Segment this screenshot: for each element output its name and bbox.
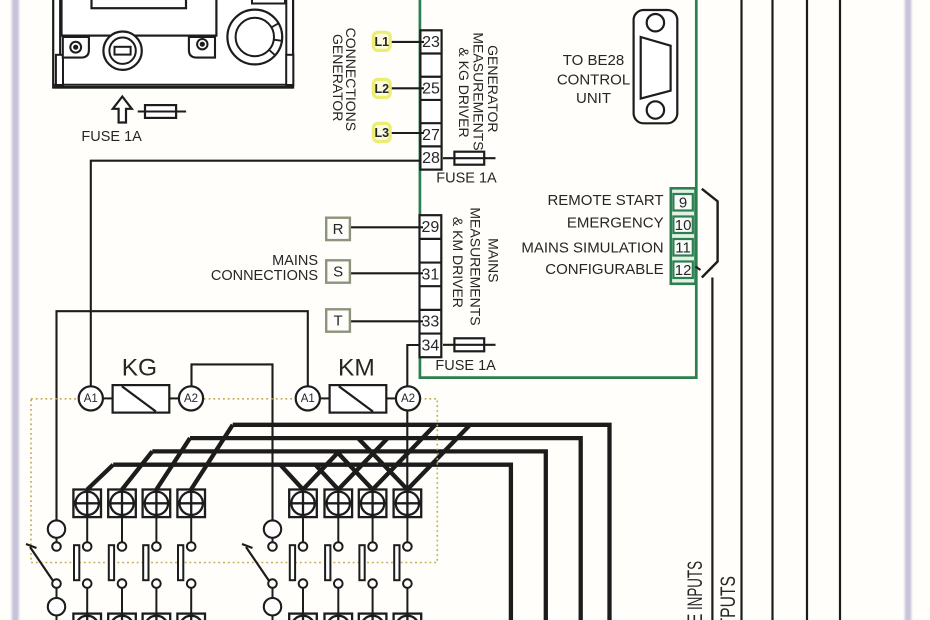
- svg-text:UNIT: UNIT: [576, 90, 611, 107]
- svg-text:29: 29: [422, 219, 440, 236]
- svg-text:33: 33: [422, 314, 440, 331]
- svg-text:9: 9: [679, 194, 687, 211]
- svg-text:L1: L1: [375, 35, 390, 49]
- svg-text:OUTPUTS: OUTPUTS: [717, 576, 740, 620]
- svg-text:KG: KG: [122, 355, 157, 382]
- svg-text:REMOTE START: REMOTE START: [547, 192, 663, 209]
- svg-text:CONNECTIONS: CONNECTIONS: [211, 268, 318, 284]
- svg-text:TO BE28: TO BE28: [563, 52, 624, 69]
- svg-text:34: 34: [422, 337, 440, 354]
- svg-text:MEASUREMENTS: MEASUREMENTS: [471, 32, 487, 150]
- svg-text:A1: A1: [84, 393, 98, 405]
- svg-text:23: 23: [422, 34, 440, 51]
- svg-text:FUSE 1A: FUSE 1A: [435, 358, 496, 374]
- svg-text:A2: A2: [184, 393, 198, 405]
- svg-text:CONTROL: CONTROL: [557, 72, 630, 89]
- svg-text:A2: A2: [401, 393, 415, 405]
- svg-text:31: 31: [422, 266, 440, 283]
- svg-text:A1: A1: [301, 393, 315, 405]
- svg-text:27: 27: [422, 127, 440, 144]
- svg-text:10: 10: [675, 217, 692, 234]
- svg-text:FUSE 1A: FUSE 1A: [436, 171, 497, 187]
- svg-text:KM: KM: [338, 355, 375, 382]
- svg-text:L3: L3: [375, 126, 390, 140]
- svg-text:25: 25: [422, 80, 440, 97]
- svg-text:T: T: [334, 313, 343, 330]
- svg-text:& KM DRIVER: & KM DRIVER: [450, 217, 466, 308]
- svg-text:FUSE 1A: FUSE 1A: [81, 129, 142, 145]
- svg-text:CONNECTIONS: CONNECTIONS: [343, 28, 359, 131]
- svg-text:& KG DRIVER: & KG DRIVER: [456, 47, 472, 137]
- svg-text:EMERGENCY: EMERGENCY: [567, 214, 664, 231]
- svg-text:MEASUREMENTS: MEASUREMENTS: [468, 207, 484, 325]
- svg-text:28: 28: [422, 150, 440, 167]
- svg-text:12: 12: [675, 262, 692, 279]
- svg-text:REMOTE INPUTS: REMOTE INPUTS: [684, 561, 707, 620]
- svg-text:GENERATOR: GENERATOR: [485, 45, 501, 132]
- svg-text:MAINS SIMULATION: MAINS SIMULATION: [521, 240, 663, 257]
- svg-text:CONFIGURABLE: CONFIGURABLE: [545, 261, 663, 278]
- svg-text:MAINS: MAINS: [272, 253, 318, 269]
- svg-text:R: R: [333, 221, 344, 238]
- svg-text:L2: L2: [375, 82, 390, 96]
- svg-text:S: S: [333, 264, 343, 281]
- svg-text:11: 11: [675, 239, 691, 256]
- svg-text:MAINS: MAINS: [485, 238, 501, 282]
